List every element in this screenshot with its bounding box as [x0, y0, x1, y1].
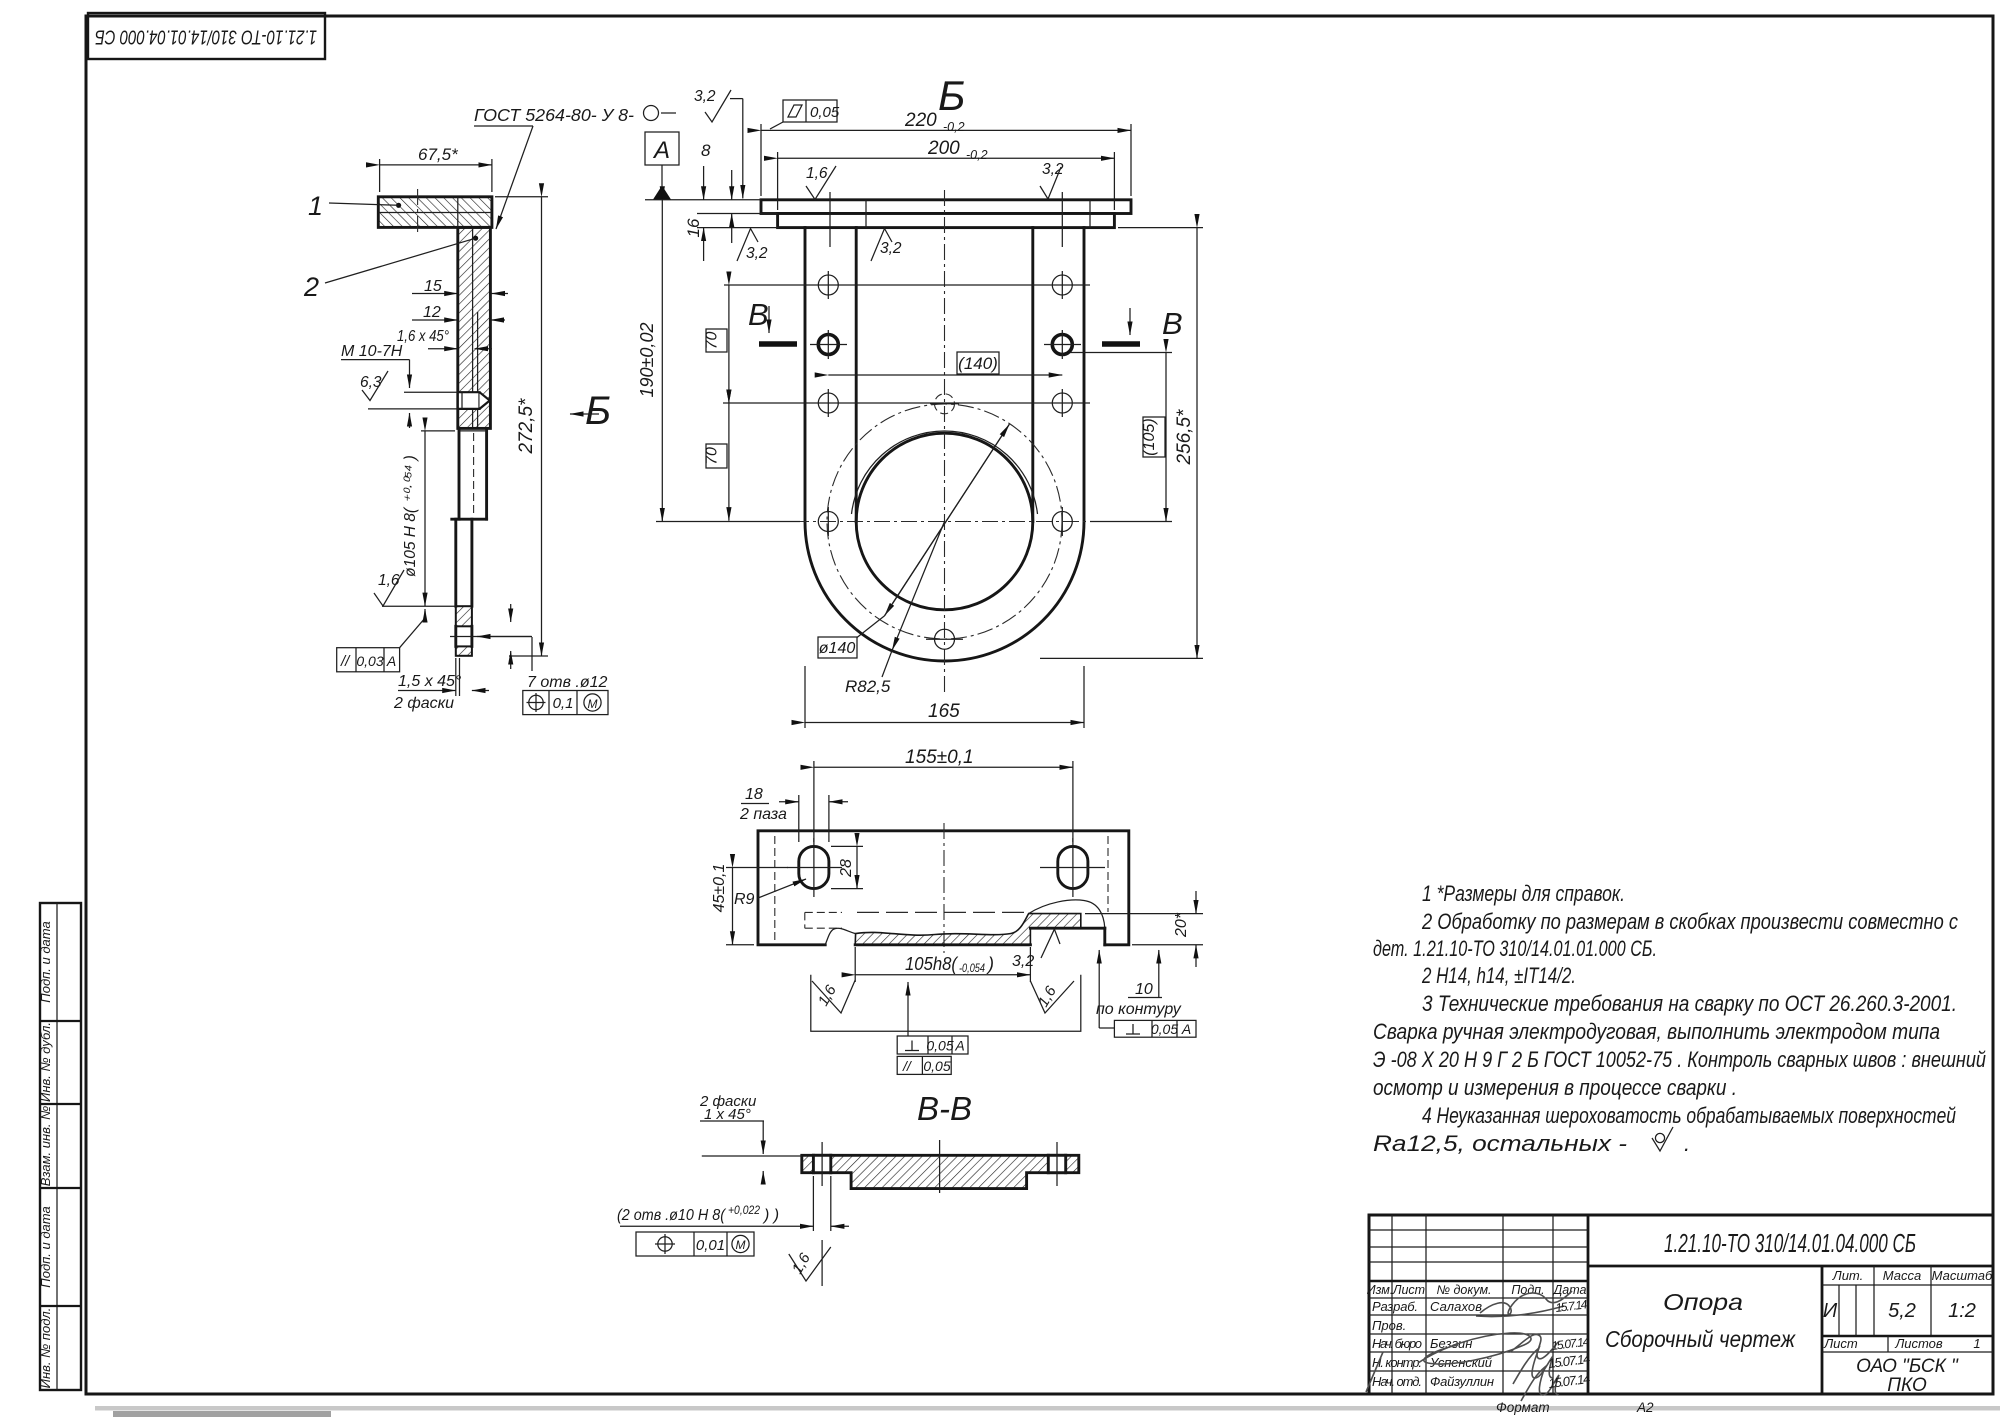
view label B (top): [938, 72, 965, 119]
section B cutting plane left: [748, 297, 797, 344]
dimension (105) vertical: [1070, 353, 1172, 522]
svg-text:2 Обработку по размерам в скоб: 2 Обработку по размерам в скобках произв…: [1421, 909, 1958, 934]
svg-text:12: 12: [423, 304, 441, 321]
svg-text:4 Неуказанная шероховатость о: 4 Неуказанная шероховатость обрабатываем…: [1422, 1103, 1956, 1128]
svg-text:-0,2: -0,2: [966, 148, 988, 162]
technical requirements text: [1373, 881, 1986, 1156]
roughness symbol in note 4: [1652, 1127, 1690, 1156]
svg-text:Э -08 Х 20 Н 9 Г 2 Б ГОСТ 1: Э -08 Х 20 Н 9 Г 2 Б ГОСТ 10052-75 . Кон…: [1373, 1047, 1986, 1072]
svg-text:1 *Размеры для справок.: 1 *Размеры для справок.: [1422, 881, 1625, 906]
hole column / leg edge extension ticks through plate: [830, 192, 1090, 247]
scan artifact grey bottom edge: [95, 1406, 2000, 1417]
roughness 1,6 on plate top: [806, 165, 836, 200]
svg-text:(2 отв .ø10 Н 8(: (2 отв .ø10 Н 8(: [617, 1207, 726, 1224]
front view: holes row3: [818, 389, 1072, 417]
svg-text:Н. контр.: Н. контр.: [1372, 1355, 1422, 1370]
svg-text:Ra12,5, остальных -: Ra12,5, остальных -: [1373, 1131, 1627, 1156]
roughness 1,6 (bore): [374, 570, 456, 606]
left view: bore region outline below leg: [452, 428, 487, 519]
svg-text:А: А: [386, 653, 396, 669]
dimension 272,5*: [495, 197, 548, 656]
dimension 256,5* vertical: [1040, 228, 1203, 659]
svg-text:(105): (105): [1141, 418, 1158, 455]
title block: part name: [1605, 1289, 1796, 1352]
svg-text:220: 220: [904, 110, 937, 131]
dimension 15: [412, 278, 508, 295]
left margin stamp column: [38, 903, 81, 1390]
svg-text:) ): ) ): [762, 1207, 779, 1224]
front view: phantom top hole: [930, 394, 959, 414]
svg-text:20*: 20*: [1173, 912, 1190, 938]
dimension (140): [828, 352, 1062, 375]
svg-text:.: .: [1684, 1131, 1690, 1156]
plan view: left slot: [787, 838, 842, 897]
svg-text:Изм.: Изм.: [1367, 1283, 1394, 1297]
svg-text:256,5*: 256,5*: [1174, 409, 1195, 466]
svg-text:1,6 x 45°: 1,6 x 45°: [397, 328, 449, 345]
svg-text:165: 165: [928, 701, 960, 722]
title block: lit/massa/masshtab section: [1822, 1266, 1993, 1396]
dimension 12: [412, 304, 505, 321]
svg-text:Б: Б: [938, 72, 965, 119]
dimension 190±0,02 vertical: [637, 200, 800, 522]
svg-text:10: 10: [1135, 981, 1153, 998]
svg-text:ГОСТ 5264-80- У 8-: ГОСТ 5264-80- У 8-: [474, 105, 634, 125]
svg-text:1: 1: [308, 191, 323, 221]
extension of top face to datum: [645, 200, 779, 228]
svg-text:67,5*: 67,5*: [418, 145, 459, 164]
svg-text:15: 15: [424, 278, 442, 295]
svg-text:3,2: 3,2: [880, 240, 902, 257]
svg-text:Лист: Лист: [1392, 1283, 1425, 1297]
title block: document number: [1664, 1228, 1916, 1258]
svg-text:15.07.14: 15.07.14: [1548, 1351, 1592, 1371]
svg-text:осмотр и измерения в процесс: осмотр и измерения в процессе сварки .: [1373, 1075, 1737, 1100]
svg-text:2 Н14, h14, ±IТ14/2.: 2 Н14, h14, ±IТ14/2.: [1421, 963, 1576, 988]
plan view: vertical centerline: [943, 823, 945, 953]
svg-text:Лист: Лист: [1823, 1336, 1858, 1351]
svg-text:В-В: В-В: [917, 1090, 972, 1127]
front view: yoke outer contour (legs + R82.5 arc): [805, 228, 1084, 661]
datum A flag: [645, 132, 679, 200]
svg-text://: //: [340, 653, 351, 670]
svg-text:Взам. инв. №: Взам. инв. №: [38, 1106, 53, 1186]
svg-text:Файзуллин: Файзуллин: [1430, 1374, 1494, 1389]
svg-text:1,6: 1,6: [806, 165, 828, 182]
dates (handwriting): [1548, 1297, 1592, 1391]
svg-text:1,6: 1,6: [815, 982, 840, 1009]
svg-text:28: 28: [838, 859, 855, 878]
svg-text:5,2: 5,2: [1888, 1300, 1916, 1322]
callout box under 105h8: [811, 975, 1081, 1031]
svg-text:ø140: ø140: [819, 640, 856, 657]
front view: holes row1: [818, 271, 1072, 299]
perpendicularity frame right: [1099, 950, 1196, 1037]
parallelism frame // 0,03 A: [337, 609, 425, 672]
plan view: right slot: [1040, 838, 1105, 897]
dimension D105 H8: [402, 431, 455, 606]
front view: lower plate 200x8 (edge): [778, 214, 1115, 228]
roughness 3,2 under plate (left): [737, 229, 768, 263]
leader R82,5: [845, 522, 945, 697]
roughness 3,2 above plate (right): [1040, 161, 1064, 199]
plan view: hidden edges (dashed): [775, 836, 1108, 940]
roughness 6,3: [360, 371, 388, 401]
part leader 1: [308, 191, 401, 221]
svg-text:В: В: [748, 297, 769, 332]
left view: ring section with hole (hatched blocks): [456, 606, 472, 656]
svg-text:-0,2: -0,2: [943, 120, 965, 134]
D12 hole width arrows: [510, 604, 512, 669]
title block: revision table left part: [1367, 1215, 1588, 1394]
dimension 165: [805, 666, 1084, 728]
svg-text:18: 18: [745, 786, 763, 803]
dimension 200-0,2: [778, 138, 1115, 210]
dimension chain 70 / 70: [704, 285, 729, 521]
format label: [1496, 1400, 1654, 1415]
svg-text:0,03: 0,03: [356, 653, 383, 669]
svg-text:190±0,02: 190±0,02: [637, 323, 657, 398]
front view: top plate 220x8 (edge): [761, 200, 1131, 214]
section B-B: hole D10 left: [813, 1142, 830, 1186]
dimension 16: [684, 166, 704, 261]
svg-text:А: А: [652, 137, 670, 164]
svg-text:-0,054: -0,054: [959, 961, 985, 975]
section B-B: hole D10 right: [1048, 1142, 1065, 1186]
svg-text:В: В: [1162, 306, 1183, 341]
plan view: plate outline: [758, 831, 1129, 945]
dimension 20*: [1085, 891, 1203, 967]
front view: vertical centerline: [944, 190, 946, 692]
thread note M10-7H: [341, 343, 458, 428]
leader R9: [734, 879, 806, 908]
svg-text:Салахов: Салахов: [1430, 1299, 1482, 1314]
dimension 8 (plate thickness): [701, 141, 732, 243]
svg-text:М 10-7Н: М 10-7Н: [341, 343, 403, 360]
svg-text:Лит.: Лит.: [1832, 1268, 1863, 1283]
section B-B body (hatched): [802, 1155, 1079, 1188]
svg-text:Формат: Формат: [1496, 1400, 1550, 1415]
svg-text:ПКО: ПКО: [1887, 1375, 1927, 1396]
svg-text:Безгин: Безгин: [1430, 1336, 1472, 1351]
svg-text:0,05: 0,05: [923, 1058, 950, 1074]
dimension 67,5*: [380, 145, 492, 192]
hole axis leader line: [450, 636, 531, 638]
part leader 2: [303, 236, 478, 302]
front view: bore chamfer arc: [852, 431, 1038, 514]
svg-text:М: М: [736, 1238, 746, 1252]
svg-text://: //: [902, 1058, 913, 1074]
svg-text:ОАО "БСК ": ОАО "БСК ": [1856, 1356, 1959, 1377]
front view: hole row line 1: [724, 284, 1090, 286]
svg-text:70: 70: [704, 332, 721, 350]
dimension 28 (slot length): [831, 846, 863, 888]
svg-text:№ докум.: № докум.: [1436, 1283, 1491, 1297]
svg-text:1.21.10-ТО 310/14.01.04.000 СБ: 1.21.10-ТО 310/14.01.04.000 СБ: [95, 26, 317, 49]
front view: holes row4: [818, 507, 1072, 536]
flatness tolerance frame 0,05: [770, 100, 840, 129]
weld flag 3,2: [694, 88, 743, 198]
svg-text:0,05: 0,05: [810, 104, 840, 121]
front view: hole row line 3: [723, 402, 1090, 404]
svg-text:1,6: 1,6: [1035, 983, 1060, 1010]
roughness 1,6 right (tongue face): [1030, 981, 1074, 1013]
svg-text:дет. 1.21.10-ТО 310/14.01.01.: дет. 1.21.10-ТО 310/14.01.01.000 СБ.: [1373, 936, 1657, 961]
svg-text:1.21.10-ТО 310/14.01.04.000 СБ: 1.21.10-ТО 310/14.01.04.000 СБ: [1664, 1228, 1916, 1258]
svg-text:70: 70: [704, 447, 721, 465]
section B-B: centerline: [939, 1140, 941, 1193]
svg-text:7 отв .ø12: 7 отв .ø12: [527, 674, 607, 691]
svg-text:15.7.14: 15.7.14: [1555, 1297, 1589, 1315]
svg-text:272,5*: 272,5*: [516, 398, 537, 455]
front view: bottom hole: [926, 629, 963, 649]
left view: plate centerline: [417, 189, 419, 234]
roughness 1,6 left (tongue face): [812, 980, 855, 1013]
svg-text:1: 1: [1973, 1336, 1980, 1351]
svg-text:2: 2: [303, 272, 319, 302]
chamfer note 1,6 x 45: [397, 328, 492, 349]
front view: yoke inner edges tangent to bore: [856, 228, 1033, 522]
left view: vertical plate section (hatched leg): [458, 197, 491, 429]
svg-text:А2: А2: [1636, 1400, 1654, 1415]
svg-text:Подп. и дата: Подп. и дата: [38, 921, 53, 1002]
svg-text:0,1: 0,1: [553, 695, 574, 712]
svg-text:1:2: 1:2: [1948, 1300, 1976, 1322]
roughness 3,2 under plate (mid): [871, 229, 902, 262]
plan view: local weld section (hatched): [825, 900, 1105, 945]
svg-text:R82,5: R82,5: [845, 677, 891, 696]
svg-text:А: А: [1181, 1021, 1191, 1037]
signatures (handwriting): [1366, 1291, 1572, 1401]
svg-text:Нач. бюро: Нач. бюро: [1372, 1336, 1422, 1351]
front view: horizontal centerline (hole row 4): [658, 521, 1172, 523]
leader D140 with label: [818, 424, 1009, 658]
svg-text:1,5 x 45°: 1,5 x 45°: [398, 673, 462, 690]
section B cutting plane right: [1102, 306, 1183, 344]
svg-text:Инв. № подл.: Инв. № подл.: [38, 1308, 53, 1389]
svg-text:Разраб.: Разраб.: [1372, 1299, 1418, 1314]
weld note 10 / по контуру: [1096, 950, 1182, 1018]
svg-text:Масштаб: Масштаб: [1932, 1268, 1993, 1283]
svg-text:2 фаски: 2 фаски: [393, 695, 454, 712]
svg-text:И: И: [1823, 1300, 1838, 1322]
left view: M10 thread hole: [458, 392, 490, 409]
svg-text:Сварка ручная электродуговая,: Сварка ручная электродуговая, выполнить …: [1373, 1019, 1940, 1044]
dimension 45±0,1: [711, 864, 788, 945]
svg-text:Масса: Масса: [1883, 1268, 1921, 1283]
weld callout GOST 5264-80: [474, 105, 676, 229]
left view: top plate section (hatched): [378, 197, 492, 228]
svg-text:1,6: 1,6: [789, 1250, 814, 1277]
dimension 2 holes D10 H8: [617, 1176, 849, 1231]
svg-text:45±0,1: 45±0,1: [711, 864, 728, 913]
svg-text:0,01: 0,01: [696, 1237, 725, 1254]
front view: bolt circle D140 (dash-dot): [827, 404, 1062, 639]
dimension 18 / 2 паза: [739, 786, 848, 842]
svg-text:3,2: 3,2: [746, 245, 768, 262]
svg-text:15.07.14: 15.07.14: [1548, 1371, 1592, 1391]
chamfer note 1,5 x 45 / 2 фаски: [393, 658, 489, 712]
svg-text:0,05: 0,05: [926, 1038, 953, 1054]
svg-text:155±0,1: 155±0,1: [905, 747, 974, 768]
svg-text:3,2: 3,2: [1012, 953, 1034, 970]
chamfer note 2 фаски 1x45: [699, 1093, 802, 1184]
svg-text:по контуру: по контуру: [1096, 1001, 1182, 1018]
svg-text:ø105 Н 8( ⁺⁰·⁰⁵⁴ ): ø105 Н 8( ⁺⁰·⁰⁵⁴ ): [402, 455, 419, 577]
title block outer: [1369, 1215, 1993, 1394]
svg-text:Сборочный чертеж: Сборочный чертеж: [1605, 1326, 1796, 1352]
note 7 holes D12 with position frame: [477, 637, 608, 715]
svg-text:Подп. и дата: Подп. и дата: [38, 1206, 53, 1287]
svg-text:Листов: Листов: [1894, 1336, 1943, 1351]
svg-text:15.07.14: 15.07.14: [1551, 1334, 1591, 1353]
view direction arrow B (left of view): [570, 389, 611, 433]
svg-text:М: М: [588, 697, 598, 711]
svg-text:(140): (140): [958, 354, 998, 373]
svg-text:Нач. отд.: Нач. отд.: [1372, 1374, 1422, 1389]
svg-text:): ): [986, 954, 994, 974]
dimension 105h8: [855, 947, 1030, 982]
top-left inverted document number box: [88, 13, 325, 59]
svg-text:105h8(: 105h8(: [905, 954, 959, 974]
svg-text:1,6: 1,6: [378, 572, 400, 589]
svg-text:А: А: [954, 1038, 964, 1054]
left view: lower rib column: [456, 519, 472, 606]
section B-B label: [917, 1090, 972, 1127]
svg-text:0,05: 0,05: [1151, 1021, 1178, 1037]
dimension 155±0,1: [814, 747, 1073, 842]
svg-text:2 паза: 2 паза: [739, 806, 787, 823]
dimension 220-0,2: [761, 110, 1131, 196]
roughness 1,6 (B-B hole): [789, 1240, 831, 1286]
svg-text:8: 8: [701, 141, 711, 160]
svg-text:16: 16: [684, 218, 703, 237]
position tolerance frame 0,01 M: [636, 1232, 754, 1256]
svg-text:R9: R9: [734, 891, 755, 908]
front view: bore circle D105: [856, 433, 1033, 610]
front view: holes row2 (bold, D10H8): [810, 330, 1081, 359]
svg-text:200: 200: [927, 138, 960, 159]
svg-text:Опора: Опора: [1663, 1289, 1743, 1315]
svg-text:Пров.: Пров.: [1372, 1318, 1406, 1333]
svg-text:Б: Б: [585, 389, 611, 433]
parallelism frame center: [897, 1056, 951, 1074]
svg-text:Инв. № дубл.: Инв. № дубл.: [38, 1022, 53, 1102]
perpendicularity frame center: [897, 982, 968, 1054]
svg-text:6,3: 6,3: [360, 374, 382, 391]
svg-text:+0,022: +0,022: [728, 1205, 761, 1217]
roughness 3,2 on section step: [1012, 929, 1060, 970]
svg-text:3 Технические требования на с: 3 Технические требования на сварку по ОС…: [1422, 991, 1957, 1016]
svg-text:3,2: 3,2: [694, 88, 716, 105]
